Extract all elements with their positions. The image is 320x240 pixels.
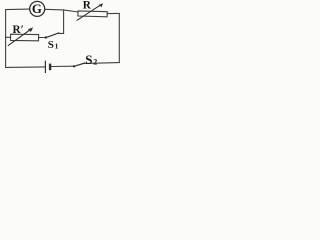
svg-text:1: 1 bbox=[55, 41, 59, 50]
wire: node A to resistor R bbox=[64, 10, 78, 12]
node A vertical wire bbox=[59, 10, 64, 34]
switch S2 arm bbox=[74, 63, 85, 66]
svg-text:R: R bbox=[83, 0, 92, 12]
resistor R body bbox=[78, 11, 107, 17]
wire: left edge to rheostat R' bbox=[6, 36, 11, 38]
wire: left edge vertical bbox=[5, 10, 7, 68]
switch S1 pivot dot bbox=[45, 36, 47, 38]
wire: resistor R to top right corner bbox=[107, 12, 119, 14]
wire: rheostat R' to switch S1 pivot bbox=[39, 37, 46, 39]
rheostat R' body bbox=[11, 34, 39, 41]
wire: battery to switch S2 pivot bbox=[51, 65, 74, 67]
svg-text:R′: R′ bbox=[13, 24, 24, 36]
wire: bottom left to battery bbox=[6, 66, 45, 69]
switch S1 arm bbox=[46, 33, 59, 38]
wire: right edge vertical bbox=[118, 13, 120, 62]
svg-text:S: S bbox=[48, 39, 54, 51]
battery long plate bbox=[44, 61, 46, 73]
resistor R arrow bbox=[77, 4, 102, 20]
svg-text:G: G bbox=[32, 2, 42, 16]
wire: galvanometer to node A bbox=[45, 8, 64, 11]
galvanometer G circle bbox=[30, 1, 45, 16]
wire: bottom right to switch S2 bbox=[85, 62, 120, 65]
wire: top left to galvanometer bbox=[6, 8, 30, 11]
rheostat R' arrow bbox=[8, 29, 31, 46]
switch S2 pivot dot bbox=[73, 65, 75, 67]
background bbox=[0, 0, 124, 78]
svg-text:S: S bbox=[85, 52, 92, 67]
svg-text:2: 2 bbox=[93, 57, 97, 66]
battery short thick plate bbox=[49, 64, 51, 71]
